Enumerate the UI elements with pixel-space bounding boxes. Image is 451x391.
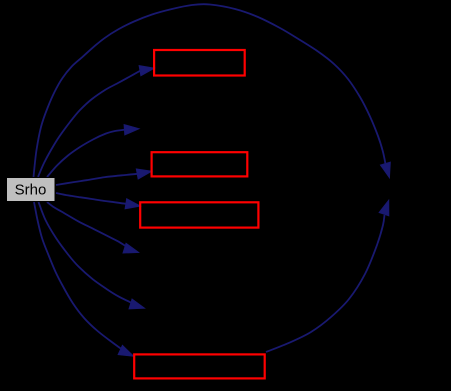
node box3 (red) <box>140 202 258 227</box>
node Srho (current node, grey) <box>7 178 56 202</box>
edge Srho to box3 <box>56 193 141 209</box>
edge Srho to box2 <box>56 169 152 185</box>
node box2 (red) <box>152 152 248 176</box>
edge Srho to box1 <box>38 66 155 178</box>
edge Srho to NE hidden node <box>47 125 139 178</box>
svg-text:Srho: Srho <box>15 182 47 199</box>
node box1 (top red) <box>154 50 245 76</box>
edge Srho to SE hidden node 2 <box>39 202 145 309</box>
node box4 (bottom red) <box>134 354 265 378</box>
edge Srho to bottom box <box>34 202 134 356</box>
edge Srho to right hidden node (top arc) <box>34 4 391 178</box>
edge Srho to SE hidden node 1 <box>47 202 139 253</box>
edge bottom box to right hidden node <box>266 200 389 352</box>
